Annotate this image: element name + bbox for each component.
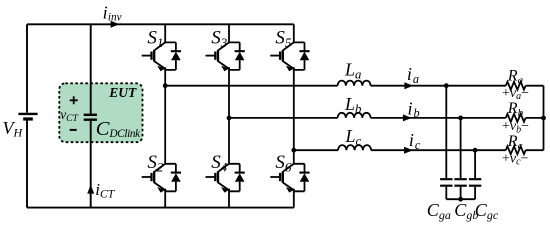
- svg-text:Lc: Lc: [345, 126, 362, 148]
- capacitor C_gc plates: [469, 179, 481, 186]
- wire: R_c to right bus: [526, 149, 544, 151]
- current arrow i_inv: [111, 21, 120, 28]
- svg-text:iCT: iCT: [95, 180, 115, 201]
- svg-text:S3: S3: [211, 27, 228, 49]
- wire: leg3 mid vertical to S6: [293, 150, 295, 164]
- node phase a junction: [163, 83, 168, 88]
- svg-text:Cgc: Cgc: [475, 200, 499, 222]
- node phase c capacitor tap: [473, 148, 478, 153]
- wire: capacitor common tie bar: [446, 198, 475, 200]
- node phase a capacitor tap: [444, 83, 449, 88]
- svg-text:S2: S2: [147, 152, 164, 174]
- wire: top DC rail: [27, 23, 294, 25]
- svg-text:EUT: EUT: [108, 85, 137, 100]
- svg-text:S5: S5: [275, 27, 292, 49]
- wire: phase c line left of inductor: [294, 149, 338, 151]
- wire: C_gb branch vertical: [460, 118, 462, 178]
- svg-text:VH: VH: [3, 118, 24, 140]
- wire: C_ga branch vertical: [445, 86, 447, 178]
- voltage source V_H battery plates: [18, 113, 37, 115]
- wire: DC-link branch vertical: [90, 24, 92, 207]
- EUT dashed green box: [59, 83, 142, 142]
- wire: leg1 collector from rail: [164, 24, 166, 42]
- wire: leg1 emitter to bottom rail: [164, 189, 166, 207]
- transistor S2 (IGBT with diode): [142, 152, 181, 193]
- wire: leg2 emitter to phase b node: [228, 68, 230, 118]
- svg-text:Rb: Rb: [507, 100, 524, 119]
- capacitor C_gb plates: [454, 179, 466, 186]
- wire: phase b line left of inductor: [229, 117, 338, 119]
- svg-text:ib: ib: [408, 98, 420, 120]
- node phase b junction: [227, 116, 232, 121]
- node phase c junction: [291, 148, 296, 153]
- wire: C_ga bottom lead: [445, 187, 447, 199]
- label + (v_CT plus): [70, 96, 78, 104]
- wire: R_b to right bus: [526, 117, 544, 119]
- transistor S4 (IGBT with diode): [206, 152, 245, 193]
- transistor S3 (IGBT with diode): [206, 27, 245, 71]
- svg-text:ia: ia: [407, 64, 419, 86]
- svg-text:S4: S4: [211, 152, 228, 174]
- wire: R_a to right bus: [526, 85, 544, 87]
- svg-text:Lb: Lb: [344, 94, 362, 116]
- capacitor C_DClink plates: [84, 115, 97, 120]
- wire: C_gc bottom lead: [474, 187, 476, 199]
- current arrow i_a: [404, 82, 413, 89]
- capacitor C_ga plates: [440, 179, 452, 186]
- wire: C_gc branch vertical: [474, 150, 476, 178]
- wire: leg1 emitter to phase a node: [164, 68, 166, 86]
- current arrow i_c: [404, 147, 413, 154]
- svg-text:Ra: Ra: [507, 67, 524, 86]
- wire: bottom DC rail: [27, 207, 294, 209]
- node right bus at R_b: [541, 116, 546, 121]
- wire: phase b line right of inductor: [371, 117, 506, 119]
- wire: phase a line right of inductor: [371, 85, 506, 87]
- wire: left vertical (battery branch): [26, 24, 28, 207]
- transistor S1 (IGBT with diode): [142, 27, 181, 71]
- wire: leg2 collector from rail: [228, 24, 230, 42]
- inductor L_a: [338, 81, 371, 86]
- transistor S5 (IGBT with diode): [270, 27, 309, 71]
- wire: leg1 mid vertical to S2: [164, 86, 166, 164]
- svg-text:La: La: [344, 60, 361, 82]
- wire: leg3 collector from rail: [293, 24, 295, 42]
- label - (v_CT minus): [70, 129, 77, 131]
- resistor R_c: [506, 146, 526, 154]
- svg-text:S6: S6: [275, 152, 292, 174]
- node phase b capacitor tap: [458, 116, 463, 121]
- wire: C_gb bottom lead: [460, 187, 462, 199]
- wire: leg3 emitter to phase c node: [293, 68, 295, 150]
- wire: phase c line right of inductor: [371, 149, 506, 151]
- node capacitor common: [458, 197, 463, 202]
- svg-text:S1: S1: [147, 27, 163, 49]
- svg-text:ic: ic: [409, 130, 421, 152]
- wire: phase a line left of inductor: [165, 85, 337, 87]
- wire: leg3 emitter to bottom rail: [293, 189, 295, 207]
- wire: leg2 mid vertical to S4: [228, 118, 230, 164]
- svg-text:+vc−: +vc−: [502, 151, 529, 167]
- current arrow i_b: [403, 114, 412, 121]
- inductor L_b: [338, 113, 371, 118]
- current arrow i_CT: [87, 185, 94, 194]
- inductor L_c: [338, 145, 371, 150]
- resistor R_a: [506, 82, 526, 90]
- transistor S6 (IGBT with diode): [270, 152, 309, 193]
- wire: leg2 emitter to bottom rail: [228, 189, 230, 207]
- svg-text:Rc: Rc: [507, 133, 523, 152]
- svg-text:iinv: iinv: [103, 3, 122, 24]
- wire: right bus vertical: [543, 86, 545, 151]
- svg-text:Cga: Cga: [427, 200, 451, 222]
- resistor R_b: [506, 114, 526, 122]
